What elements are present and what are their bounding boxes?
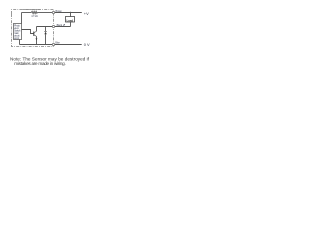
wire top (brown) left segment: [22, 12, 32, 14]
wire load to black wire: [70, 22, 72, 27]
svg-text:Black: Black: [57, 24, 63, 27]
terminal brown: [52, 11, 54, 13]
diode D1: [44, 30, 47, 32]
wire black (output): [37, 26, 71, 28]
main circuit block text: [14, 24, 21, 40]
wire top to brown terminal: [37, 12, 52, 14]
sensor outline dashed box: [12, 10, 54, 47]
emitter arrowhead: [36, 38, 38, 40]
svg-text:4.7 kΩ: 4.7 kΩ: [31, 15, 38, 18]
svg-text:ampl.: ampl.: [14, 37, 20, 40]
transistor emitter drop: [36, 36, 38, 44]
svg-text:+V: +V: [84, 11, 89, 16]
terminal black: [52, 25, 54, 27]
output arrow mark: [63, 24, 65, 26]
svg-text:Blue: Blue: [55, 41, 60, 44]
wire base from main circuit: [22, 30, 34, 34]
wire brown to +V: [55, 12, 82, 14]
load box: [66, 17, 75, 23]
junction dot on +V rail: [70, 12, 71, 13]
svg-text:0 V: 0 V: [84, 42, 90, 47]
main circuit block: [14, 24, 22, 40]
transistor collector riser: [36, 27, 38, 32]
svg-text:mistakes are made in wiring.: mistakes are made in wiring.: [14, 61, 65, 66]
wire riser main circuit to 0V rail: [19, 40, 21, 45]
wire riser from main circuit to top wire: [21, 13, 23, 24]
resistor R1: [31, 11, 37, 14]
box top edge solid run artifact: [22, 9, 40, 11]
wire load drop from +V rail: [70, 13, 72, 17]
transistor Q1 collector/emitter diagonals: [34, 31, 37, 36]
wire 0V rail inside: [20, 44, 53, 46]
terminal blue: [52, 43, 54, 45]
transistor Q1 base bar: [33, 32, 35, 36]
svg-text:Load: Load: [67, 18, 74, 22]
wire blue to 0V: [55, 44, 82, 46]
diode D1 wire: [45, 27, 47, 45]
